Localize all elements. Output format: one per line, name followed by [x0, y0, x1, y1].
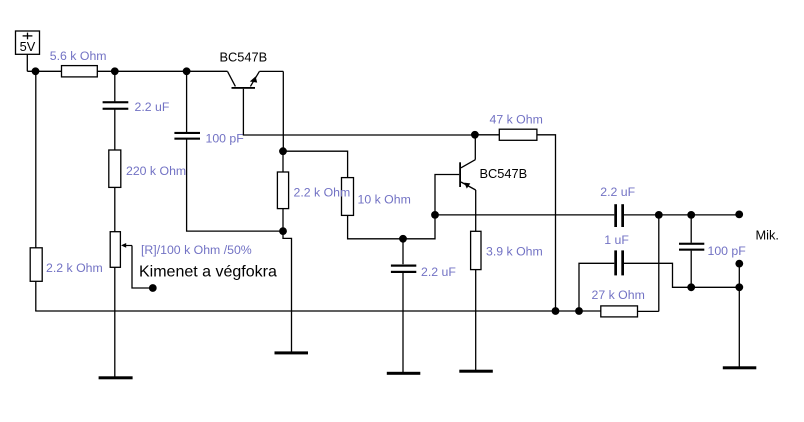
- node top rail junction C: [183, 67, 191, 75]
- node Mik terminal 1: [735, 211, 743, 219]
- ground G3: [387, 372, 421, 375]
- wire 100pF top stem: [690, 215, 692, 243]
- wire 27k right up: [638, 310, 659, 312]
- wire D10 down to 27k: [658, 215, 660, 312]
- node D13 on rail: [575, 307, 583, 315]
- wire output line left: [435, 214, 614, 216]
- svg-text:2.2 uF: 2.2 uF: [135, 100, 170, 114]
- resistor 47k: [499, 129, 537, 140]
- node D15: [735, 283, 743, 291]
- svg-text:47 k Ohm: 47 k Ohm: [490, 112, 543, 126]
- node D8: [471, 131, 479, 139]
- wire D4 elbow to ground G2: [283, 231, 292, 352]
- wire cap branch top: [114, 71, 116, 101]
- node D11: [687, 211, 695, 219]
- wire D8 to 47k: [475, 134, 499, 136]
- wire D14 to Mik lower: [691, 286, 739, 288]
- node D10: [655, 211, 663, 219]
- wire 100pF to node D4: [187, 140, 280, 232]
- svg-text:2.2 uF: 2.2 uF: [600, 185, 635, 199]
- capacitor 2.2uF output: [614, 204, 624, 227]
- svg-text:220 k Ohm: 220 k Ohm: [126, 164, 186, 178]
- svg-text:Kimenet a végfokra: Kimenet a végfokra: [139, 263, 277, 280]
- potentiometer R 100k: [110, 232, 132, 268]
- node top rail junction B: [111, 67, 119, 75]
- resistor 3.9k: [471, 231, 481, 269]
- wire 10k to node D6: [348, 215, 400, 238]
- resistor 5.6k: [62, 66, 98, 77]
- ground G4: [459, 370, 493, 373]
- wire cap to 220k: [114, 110, 116, 150]
- wire D5 to 2.2k: [282, 151, 284, 172]
- node D9 on rail: [552, 307, 560, 315]
- wire wiper to output: [132, 246, 151, 289]
- ground G2: [275, 351, 309, 354]
- svg-text:3.9 k Ohm: 3.9 k Ohm: [486, 244, 543, 258]
- wire battery stem: [26, 54, 28, 71]
- wire D6 to node D7: [403, 215, 435, 239]
- wire 2.2k to D4: [282, 209, 284, 232]
- wire 100pF branch top: [186, 71, 188, 132]
- svg-text:Mik.: Mik.: [756, 228, 779, 243]
- resistor 2.2k stage2: [277, 172, 288, 209]
- wire 100pF bottom stem: [690, 251, 692, 288]
- wire to ground G5: [738, 287, 740, 367]
- wire 3.9k to ground G4: [475, 270, 477, 371]
- svg-text:5V: 5V: [20, 39, 36, 54]
- svg-text:10 k Ohm: 10 k Ohm: [358, 193, 411, 207]
- node Mik terminal 2: [735, 260, 743, 268]
- svg-text:100 pF: 100 pF: [206, 132, 245, 146]
- resistor 220k: [109, 150, 121, 187]
- wire Q2 collector up: [474, 135, 476, 160]
- wire 1uF right to D14: [624, 263, 688, 287]
- capacitor 100pF input: [174, 132, 200, 140]
- node D6: [399, 235, 407, 243]
- node D7: [431, 211, 439, 219]
- svg-text:BC547B: BC547B: [480, 166, 528, 181]
- node D5: [279, 147, 287, 155]
- resistor 2.2k left: [30, 248, 42, 281]
- svg-text:[R]/100 k Ohm /50%: [R]/100 k Ohm /50%: [141, 243, 252, 257]
- wire 47k down to rail: [537, 135, 556, 311]
- svg-text:27 k Ohm: 27 k Ohm: [592, 288, 645, 302]
- node D14: [687, 283, 695, 291]
- wire cap middle to ground G3: [402, 273, 404, 373]
- capacitor 100pF output: [679, 243, 704, 251]
- wire output line right: [624, 214, 739, 216]
- wire Q1 emitter top: [259, 70, 283, 72]
- svg-text:2.2 k Ohm: 2.2 k Ohm: [294, 185, 351, 199]
- wire top rail: [27, 70, 227, 72]
- resistor 27k: [601, 306, 638, 317]
- svg-text:1 uF: 1 uF: [604, 233, 629, 247]
- svg-text:2.2 uF: 2.2 uF: [421, 265, 456, 279]
- wire Q2 emitter down: [475, 190, 477, 231]
- wire Q1 base to Q2 collector node: [243, 89, 475, 135]
- wire Mik terminal 2 down: [738, 264, 740, 288]
- wire pot to ground: [114, 267, 116, 377]
- svg-text:100 pF: 100 pF: [708, 244, 747, 258]
- ground G1: [99, 376, 133, 379]
- svg-text:5.6 k Ohm: 5.6 k Ohm: [50, 49, 107, 63]
- transistor Q2 BC547B: [459, 160, 476, 190]
- capacitor 2.2uF input: [103, 101, 129, 110]
- wire left branch down: [35, 71, 37, 248]
- wire left branch to rail: [35, 281, 37, 311]
- wire 220k to pot: [114, 187, 116, 231]
- node D4: [279, 227, 287, 235]
- battery 5V: [16, 31, 40, 54]
- capacitor 1uF: [614, 250, 624, 275]
- wire Q1 emitter down: [282, 71, 284, 151]
- node V+ left junction: [32, 67, 40, 75]
- capacitor 2.2uF middle: [391, 265, 416, 274]
- wire bottom rail: [35, 310, 601, 312]
- resistor 10k: [342, 178, 354, 216]
- wire D5 to 10k: [283, 151, 348, 177]
- svg-text:BC547B: BC547B: [220, 49, 268, 64]
- svg-text:2.2 k Ohm: 2.2 k Ohm: [46, 261, 103, 275]
- wire 1uF left to rail: [579, 263, 614, 311]
- node output terminal Kimenet: [149, 284, 157, 292]
- ground G5: [723, 366, 757, 369]
- wire D6 to cap: [402, 239, 404, 264]
- transistor Q1 BC547B: [228, 71, 260, 88]
- wire D7 to Q2 base: [435, 175, 459, 215]
